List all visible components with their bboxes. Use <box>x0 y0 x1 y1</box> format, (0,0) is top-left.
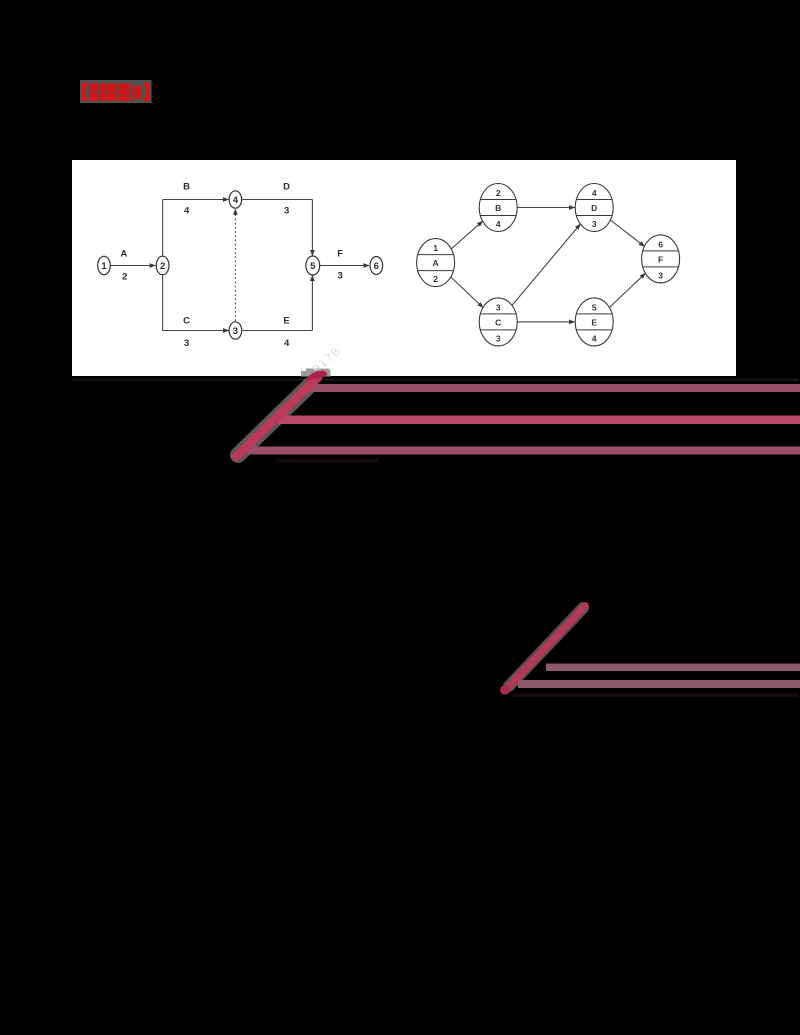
svg-text:E: E <box>591 318 597 328</box>
arrow node C to node D <box>512 224 580 305</box>
red line 4 <box>546 664 800 672</box>
svg-text:B: B <box>495 203 501 213</box>
svg-text:2: 2 <box>496 188 501 198</box>
node 4/D/3 <box>575 184 613 232</box>
svg-text:E: E <box>283 316 289 327</box>
svg-text:1: 1 <box>101 261 107 272</box>
arrow node D to node F <box>610 220 644 246</box>
svg-text:4: 4 <box>284 338 290 349</box>
svg-text:2: 2 <box>160 261 165 272</box>
svg-text:D: D <box>591 203 597 213</box>
svg-text:5: 5 <box>310 261 316 272</box>
svg-text:C: C <box>183 316 190 327</box>
wire left rail node2 up to top-left corner <box>162 200 164 258</box>
svg-text:B: B <box>183 181 190 192</box>
red line 3 <box>248 447 800 455</box>
svg-text:6: 6 <box>374 261 379 272</box>
svg-text:4: 4 <box>592 188 597 198</box>
arrow node A to node C <box>451 277 483 308</box>
arrow node A to node B <box>451 221 482 249</box>
svg-text:3: 3 <box>284 205 289 216</box>
arrow node C to node E <box>517 321 574 323</box>
faint ghost line under box bottom edge <box>72 379 798 381</box>
faint ghost row under stroke 2 <box>512 694 798 698</box>
pen stroke 1 top tip blob <box>305 371 327 382</box>
red line 1 <box>308 384 800 392</box>
gray jpeg halo of pen stroke 1 <box>238 385 310 455</box>
pen stroke 1 <box>237 377 319 457</box>
title red CJK text (blurred glyph shapes) <box>82 83 150 101</box>
svg-text:3: 3 <box>496 334 501 344</box>
svg-text:4: 4 <box>184 205 190 216</box>
wire activity A node1 to node2 <box>110 265 155 267</box>
wire left rail node2 down to bottom-left corner <box>162 274 164 331</box>
svg-text:3: 3 <box>592 219 597 229</box>
node 2 <box>156 256 169 275</box>
svg-text:D: D <box>283 181 290 192</box>
node 3/C/3 <box>479 298 517 346</box>
svg-text:3: 3 <box>338 270 343 281</box>
svg-text:A: A <box>433 258 439 268</box>
svg-text:5: 5 <box>592 303 597 313</box>
gray jpeg halo of pen stroke 1 tip on white <box>301 369 331 377</box>
node 4 <box>229 191 242 208</box>
svg-text:2: 2 <box>122 272 127 283</box>
svg-text:3: 3 <box>233 326 238 337</box>
node 5/E/4 <box>575 298 613 346</box>
node 6/F/3 <box>642 235 680 283</box>
wire activity E from node 3 to bottom-right corner up into node 5 <box>242 330 312 332</box>
node 1/A/2 <box>417 239 455 287</box>
svg-text:3: 3 <box>658 271 663 281</box>
wire activity B top rail into node 4 <box>163 199 229 201</box>
svg-text:A: A <box>120 249 127 260</box>
gray jpeg halo of pen stroke 2 <box>509 608 583 686</box>
title badge background <box>80 80 152 103</box>
svg-text:4: 4 <box>496 219 501 229</box>
wire activity C bottom rail into node 3 <box>163 330 229 332</box>
svg-text:3: 3 <box>496 303 501 313</box>
node 6 <box>370 257 383 275</box>
svg-text:4: 4 <box>592 334 597 344</box>
node 3 <box>229 322 242 339</box>
svg-text:1: 1 <box>433 243 438 253</box>
svg-text:2: 2 <box>433 274 438 284</box>
pen stroke 2 <box>508 606 586 688</box>
svg-text:F: F <box>337 249 343 260</box>
wire activity D from node 4 to top-right corner down into node 5 <box>242 199 312 201</box>
svg-text:6: 6 <box>658 240 663 250</box>
node 2/B/4 <box>479 184 517 232</box>
red line 2 <box>278 416 800 425</box>
node 1 <box>98 256 111 274</box>
svg-text:F: F <box>658 255 663 265</box>
wire activity F node5 to node6 <box>320 265 369 267</box>
arrow node B to node D <box>517 207 574 209</box>
svg-text:4: 4 <box>233 195 239 206</box>
node 5 <box>306 256 320 275</box>
white figure box <box>72 160 736 376</box>
svg-text:3: 3 <box>184 338 189 349</box>
arrow node E to node F <box>609 273 645 307</box>
svg-text:C: C <box>495 318 501 328</box>
dashed dummy activity from node 3 up to node 4 <box>234 209 236 321</box>
red line 5 <box>518 680 800 688</box>
pen stroke 2 bottom end blob <box>500 685 510 694</box>
faint ghost row under line 3 <box>275 459 379 463</box>
